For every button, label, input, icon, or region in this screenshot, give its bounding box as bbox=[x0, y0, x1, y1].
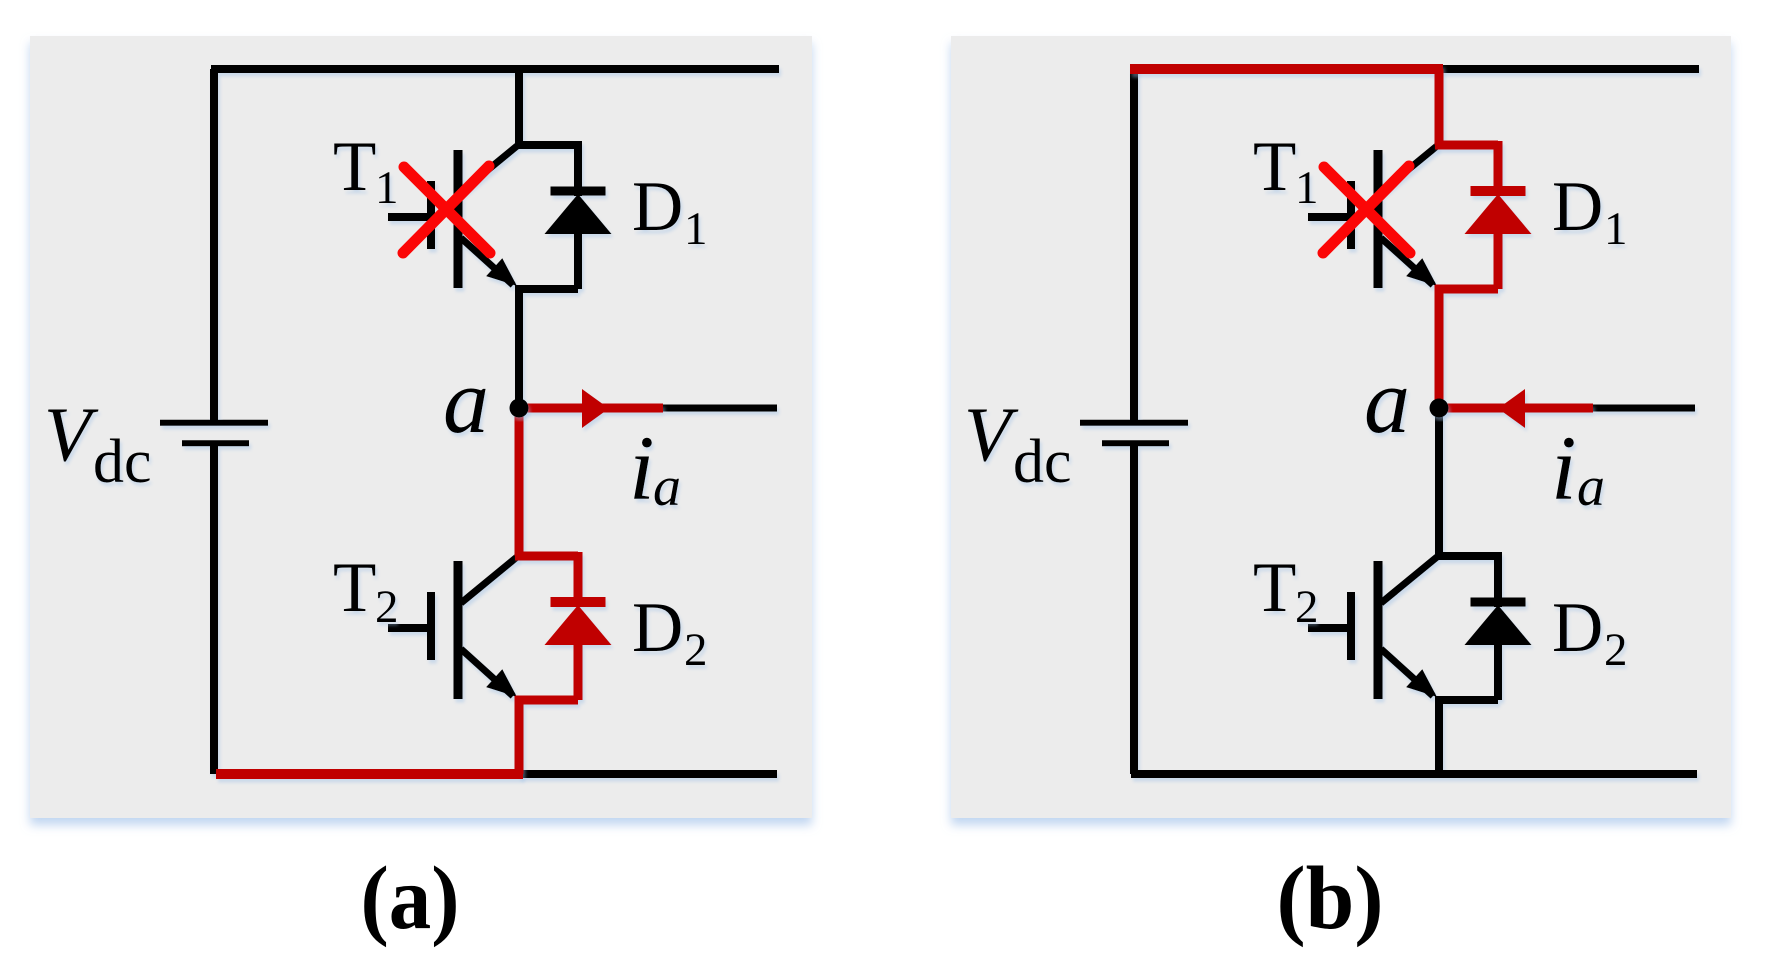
wire: red node a to T2/D2 top corner (a) bbox=[515, 404, 524, 556]
diode D2 triangle (a) bbox=[545, 605, 612, 645]
svg-text:T: T bbox=[333, 128, 376, 206]
diode D2 cathode bar (a) bbox=[551, 597, 606, 607]
node a junction dot (a) bbox=[510, 399, 529, 418]
wire: top DC bus black segment (b) bbox=[1439, 65, 1699, 73]
svg-text:a: a bbox=[443, 350, 489, 452]
battery Vdc short plate (b) bbox=[1102, 440, 1169, 446]
transistor T1 body bar (a) bbox=[454, 150, 463, 288]
wire: T1/D1 top corner horizontal (a) bbox=[515, 141, 578, 149]
svg-text:i: i bbox=[1551, 417, 1577, 519]
transistor T2 collector diagonal (b) bbox=[1381, 557, 1437, 603]
wire: red output segment from node a (a) bbox=[519, 404, 663, 413]
transistor T1 gate lead (a) bbox=[388, 213, 431, 221]
wire: left vertical from battery - to bottom bus (a) bbox=[210, 446, 218, 774]
current arrow ia (a) bbox=[582, 389, 609, 428]
wire: bottom bus black segment (a) bbox=[519, 770, 777, 778]
wire: red D2 cathode lead vertical (a) bbox=[574, 552, 583, 607]
transistor T1 collector diagonal (b) bbox=[1381, 146, 1437, 192]
svg-text:i: i bbox=[629, 417, 655, 519]
wire: D1 anode lead vertical (a) bbox=[574, 230, 582, 289]
wire: red top bus to T1/D1 top corner (b) bbox=[1435, 69, 1444, 145]
svg-text:a: a bbox=[1577, 456, 1605, 518]
wire: D2 anode lead vertical (b) bbox=[1494, 641, 1502, 700]
wire: D1 cathode lead vertical (a) bbox=[574, 141, 582, 196]
labels panel (b) bbox=[964, 128, 1628, 676]
node a junction dot (b) bbox=[1430, 399, 1449, 418]
wire: T1/D1 bottom corner horizontal (a) bbox=[515, 285, 578, 293]
diode D1 triangle (b) bbox=[1465, 194, 1532, 234]
svg-text:1: 1 bbox=[1295, 162, 1319, 214]
wire: node a to T2 collector vertical (b) bbox=[1435, 408, 1443, 556]
svg-text:T: T bbox=[1253, 128, 1296, 206]
svg-text:2: 2 bbox=[375, 581, 399, 633]
battery Vdc short plate (a) bbox=[182, 440, 249, 446]
svg-text:1: 1 bbox=[375, 162, 399, 214]
svg-text:2: 2 bbox=[1604, 624, 1628, 676]
diode D1 cathode bar (b) bbox=[1471, 186, 1526, 196]
diode D2 cathode bar (b) bbox=[1471, 598, 1526, 607]
transistor T1 emitter diagonal (a) bbox=[461, 238, 513, 285]
wire: top DC bus (a) bbox=[211, 65, 779, 73]
transistor T1 gate bar (a) bbox=[427, 181, 435, 249]
wire: left vertical from top bus to battery + (b) bbox=[1130, 69, 1138, 420]
svg-text:D: D bbox=[632, 589, 683, 667]
wire: red D1 bottom corner to node a (b) bbox=[1435, 285, 1444, 408]
wire: left vertical from battery - to bottom bus (b) bbox=[1130, 446, 1138, 774]
wire: red D1 cathode lead vertical (b) bbox=[1494, 141, 1503, 196]
svg-text:dc: dc bbox=[93, 428, 152, 496]
wire: output line black segment (b) bbox=[1593, 405, 1695, 412]
wire: red output segment into node a (b) bbox=[1439, 404, 1593, 413]
diode D1 cathode bar (a) bbox=[551, 187, 606, 196]
transistor T2 emitter arrowhead (b) bbox=[1406, 669, 1437, 697]
svg-text:V: V bbox=[964, 392, 1019, 478]
svg-text:(a): (a) bbox=[361, 849, 460, 948]
transistor T1 emitter arrowhead (b) bbox=[1406, 258, 1437, 286]
caption (a) bbox=[361, 849, 460, 948]
panel (a) background bbox=[30, 36, 812, 818]
transistor T1 collector diagonal (a) bbox=[461, 146, 517, 192]
wire: branch vertical top bus to T1 collector corner (a) bbox=[515, 69, 523, 145]
wire: red D2 anode lead vertical (a) bbox=[574, 641, 583, 700]
svg-text:1: 1 bbox=[684, 203, 708, 255]
wire: left vertical from top bus to battery + (a) bbox=[210, 69, 218, 420]
red X fault mark over T1 (b) bbox=[1323, 166, 1410, 253]
wire: red T1/D1 bottom corner horizontal (b) bbox=[1435, 285, 1498, 294]
transistor T2 gate bar (a) bbox=[427, 592, 435, 660]
wire: T2/D2 top corner horizontal (b) bbox=[1435, 552, 1498, 560]
wire: D2 cathode lead vertical (b) bbox=[1494, 552, 1502, 607]
svg-text:V: V bbox=[44, 392, 99, 478]
red current path of panel (a): node a down through T2/D2 corner, D2, to bottom bus bbox=[216, 389, 663, 774]
transistor T2 gate lead (b) bbox=[1308, 624, 1351, 632]
wire: T2/D2 bottom corner horizontal (b) bbox=[1435, 696, 1498, 704]
wire: output line black segment (a) bbox=[663, 405, 777, 412]
current arrow ia (b) bbox=[1498, 389, 1525, 428]
red X fault mark over T1 (a) bbox=[403, 166, 490, 253]
wire: red D1 anode lead vertical (b) bbox=[1494, 230, 1503, 289]
svg-text:a: a bbox=[653, 456, 681, 518]
transistor T2 gate bar (b) bbox=[1347, 592, 1355, 660]
transistor T2 body bar (a) bbox=[454, 561, 463, 699]
wire: red T2/D2 top corner horizontal (a) bbox=[515, 552, 578, 561]
transistor T2 emitter diagonal (b) bbox=[1381, 649, 1433, 696]
transistor T1 emitter diagonal (b) bbox=[1381, 238, 1433, 285]
transistor T2 emitter diagonal (a) bbox=[461, 649, 513, 696]
svg-text:(b): (b) bbox=[1277, 849, 1384, 948]
svg-text:2: 2 bbox=[684, 624, 708, 676]
svg-text:1: 1 bbox=[1604, 203, 1628, 255]
transistor T1 gate lead (b) bbox=[1308, 213, 1351, 221]
caption (b) bbox=[1277, 849, 1384, 948]
red current path of panel (b): output into node a, up through D1 to top bus bbox=[1130, 69, 1593, 428]
transistor T2 emitter arrowhead (a) bbox=[486, 669, 517, 697]
wire: red T2/D2 bottom corner horizontal (a) bbox=[515, 696, 578, 705]
wire: red bottom bus segment (a) bbox=[216, 769, 523, 779]
svg-text:T: T bbox=[333, 549, 376, 627]
svg-text:a: a bbox=[1364, 350, 1410, 452]
battery Vdc long plate (b) bbox=[1080, 420, 1188, 426]
transistor T1 emitter arrowhead (a) bbox=[486, 258, 517, 286]
wire: red T2 emitter corner to bottom bus (a) bbox=[515, 696, 524, 774]
wire: bottom bus (b) bbox=[1131, 770, 1697, 778]
transistor T2 body bar (b) bbox=[1374, 561, 1383, 699]
diode D2 triangle (b) bbox=[1465, 605, 1532, 645]
svg-text:dc: dc bbox=[1013, 428, 1072, 496]
diode D1 triangle (a) bbox=[545, 194, 612, 234]
wire: red top bus segment (b) bbox=[1130, 64, 1443, 74]
svg-text:T: T bbox=[1253, 549, 1296, 627]
battery Vdc long plate (a) bbox=[160, 420, 268, 426]
wire: red T1/D1 top corner horizontal (b) bbox=[1435, 141, 1498, 150]
labels panel (a) bbox=[44, 128, 708, 676]
panel (b) background bbox=[951, 36, 1731, 818]
transistor T2 gate lead (a) bbox=[388, 624, 431, 632]
svg-text:D: D bbox=[1552, 168, 1603, 246]
transistor T2 collector diagonal (a) bbox=[461, 557, 517, 603]
svg-text:2: 2 bbox=[1295, 581, 1319, 633]
wire: T1 emitter to node a vertical (a) bbox=[515, 289, 523, 408]
transistor T1 body bar (b) bbox=[1374, 150, 1383, 288]
svg-text:D: D bbox=[632, 168, 683, 246]
transistor T1 gate bar (b) bbox=[1347, 181, 1355, 249]
wire: T2 emitter to bottom bus vertical (b) bbox=[1435, 696, 1443, 774]
svg-text:D: D bbox=[1552, 589, 1603, 667]
